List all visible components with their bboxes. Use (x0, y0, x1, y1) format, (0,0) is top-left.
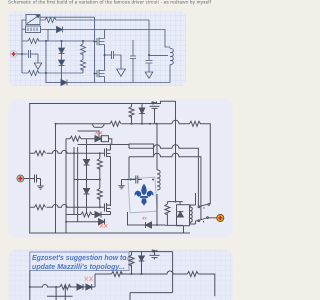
resistor R8 (35, 151, 46, 156)
wire lower bus (22, 72, 83, 74)
wire row (66, 138, 95, 140)
svg-text:Schematic of the first build o: Schematic of the first build of a variat… (8, 0, 212, 4)
wire riser (94, 274, 96, 287)
diode D4 (46, 80, 170, 86)
resistor R7 (190, 121, 201, 126)
transformer T1 feedback box (22, 15, 95, 25)
wire upper right (106, 30, 169, 48)
zener D3 (59, 60, 65, 83)
wire lower feed (30, 205, 105, 208)
ground GND4 (37, 179, 43, 190)
red annotation 4x (142, 216, 148, 221)
resistor R16 (60, 285, 77, 290)
diode D15 (99, 219, 105, 225)
wire from terminal (17, 53, 28, 55)
wire drain link (78, 144, 129, 146)
resistor R18 (112, 272, 123, 277)
diode D13 (77, 284, 86, 290)
note text (32, 253, 127, 271)
fleur-de-lis emblem (135, 184, 154, 206)
wire drain rail (175, 101, 177, 202)
red annotation x2 (95, 131, 102, 135)
capacitor C4 (146, 20, 169, 72)
wire bottom link (47, 295, 73, 297)
output terminal (yellow) (217, 215, 224, 222)
resistor R9 (35, 205, 46, 210)
junction dots (55, 123, 177, 226)
wire cross-couple A (46, 30, 48, 84)
inductor L2 (157, 124, 160, 225)
wire drop rails (56, 287, 65, 300)
wire upper feed (30, 150, 105, 153)
wire top bus (56, 19, 149, 21)
diode D12 (139, 252, 145, 274)
resistor R1 (45, 18, 56, 23)
resistor R6 (110, 121, 121, 126)
resistor R12 (81, 212, 92, 217)
wire top (129, 251, 173, 253)
oscillator box (tilted) (128, 177, 157, 213)
wire rail E (73, 147, 75, 214)
note box (30, 252, 129, 271)
wire rail G (86, 139, 88, 214)
capacitor C3 (130, 40, 136, 83)
battery terminal IN (green) (17, 175, 24, 182)
wire link bottom (66, 221, 99, 223)
svg-text:4x: 4x (142, 216, 148, 221)
transformer T2 secondary (190, 193, 196, 224)
transistor Q4 (92, 124, 104, 127)
wire mid bus (22, 40, 95, 42)
wire gate link top (78, 131, 99, 139)
wire gate bus (56, 124, 211, 204)
capacitor C6 (130, 176, 142, 184)
mosfet Q7 (150, 250, 160, 260)
wire bottom row (66, 214, 111, 216)
battery terminal + (red) (10, 51, 16, 57)
wire to ground (37, 54, 39, 63)
capacitor C5 (35, 175, 41, 183)
wire left rail (21, 20, 23, 74)
resistor R13 (165, 202, 183, 226)
wire stair A (129, 145, 198, 207)
wire rail C (55, 124, 57, 233)
wire stair B (129, 153, 201, 219)
transformer T1 primary winding (22, 26, 46, 33)
svg-text:10: 10 (125, 256, 130, 261)
red annotation note (100, 224, 107, 228)
diode D10 (146, 222, 152, 228)
resistor R4 (81, 41, 86, 73)
wire gate rail (94, 17, 96, 82)
mosfet Q3 (150, 101, 176, 124)
ground GND5 (118, 180, 124, 189)
junction dots (29, 273, 143, 288)
mosfet Q5 (105, 145, 111, 207)
red annotation xx (85, 277, 93, 282)
diode D9 (95, 212, 101, 218)
svg-text:Egzoset's suggestion how to: Egzoset's suggestion how to (32, 253, 127, 262)
wire mid bus (95, 271, 187, 274)
wire left loop (129, 144, 154, 179)
ground GND1 (34, 63, 42, 69)
resistor R3 (28, 71, 39, 76)
wire from terminal (24, 178, 35, 180)
diode D1 (46, 27, 107, 33)
zener D2 (59, 41, 65, 60)
wire lower bus (30, 271, 60, 300)
junction dots (21, 40, 150, 84)
capacitor C2 (105, 51, 122, 69)
wire cap link (122, 179, 130, 181)
switch SW1 (198, 204, 210, 209)
switch SW2 (196, 217, 209, 223)
resistor R14 (129, 252, 134, 274)
resistor R17 (70, 136, 81, 141)
resistor R10 (97, 153, 102, 188)
resistor R11 (97, 189, 102, 208)
mosfet Q2 (95, 55, 105, 83)
inductor L1 (169, 47, 174, 83)
ground GND3 (145, 72, 153, 78)
wire rail F (77, 147, 79, 222)
resistor R15 (187, 272, 215, 297)
value label 10 (125, 256, 130, 261)
capacitor C1 (29, 50, 39, 58)
resistor R5 (129, 104, 134, 124)
pot box P1 (102, 136, 112, 145)
wire to output (208, 217, 216, 219)
diode D6 (95, 136, 101, 142)
mosfet Q1 (95, 30, 105, 56)
svg-text:update Mazzilli's topology...: update Mazzilli's topology... (32, 262, 125, 271)
diode D14 (86, 284, 95, 290)
mosfet Q6 (105, 203, 111, 215)
ground GND2 (117, 69, 126, 76)
zener D5 (139, 104, 145, 124)
zener D8 (84, 189, 90, 195)
wire bottom center (128, 212, 166, 225)
wire right rail (130, 252, 173, 300)
resistor R2 (28, 39, 39, 44)
wire rail D (65, 139, 67, 233)
wire outer frame (30, 104, 190, 234)
rectifier block D11 (177, 202, 190, 234)
wire link mid (74, 179, 100, 181)
wire hop (172, 120, 179, 124)
zener D7 (84, 160, 90, 166)
